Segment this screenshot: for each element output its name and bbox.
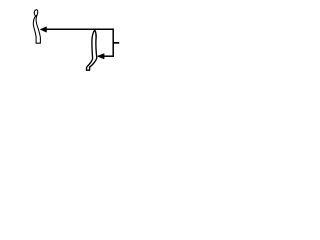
wire: A2 tail to vertical run [104,55,114,57]
wire: right vertical run [112,29,114,57]
curved strip electrode E1 (left, loop at top, block foot at bottom) [33,10,40,43]
wiper arrow A1 head (points left at E1) [40,27,46,33]
curved strip electrode E2 (right, apex at top wire, block foot at bottom-left) [87,30,97,70]
wiper arrow A2 head (points left at E2) [97,54,104,59]
wire: short stub to the right [113,42,119,44]
wire: A1 tail, top horizontal run [46,28,114,30]
